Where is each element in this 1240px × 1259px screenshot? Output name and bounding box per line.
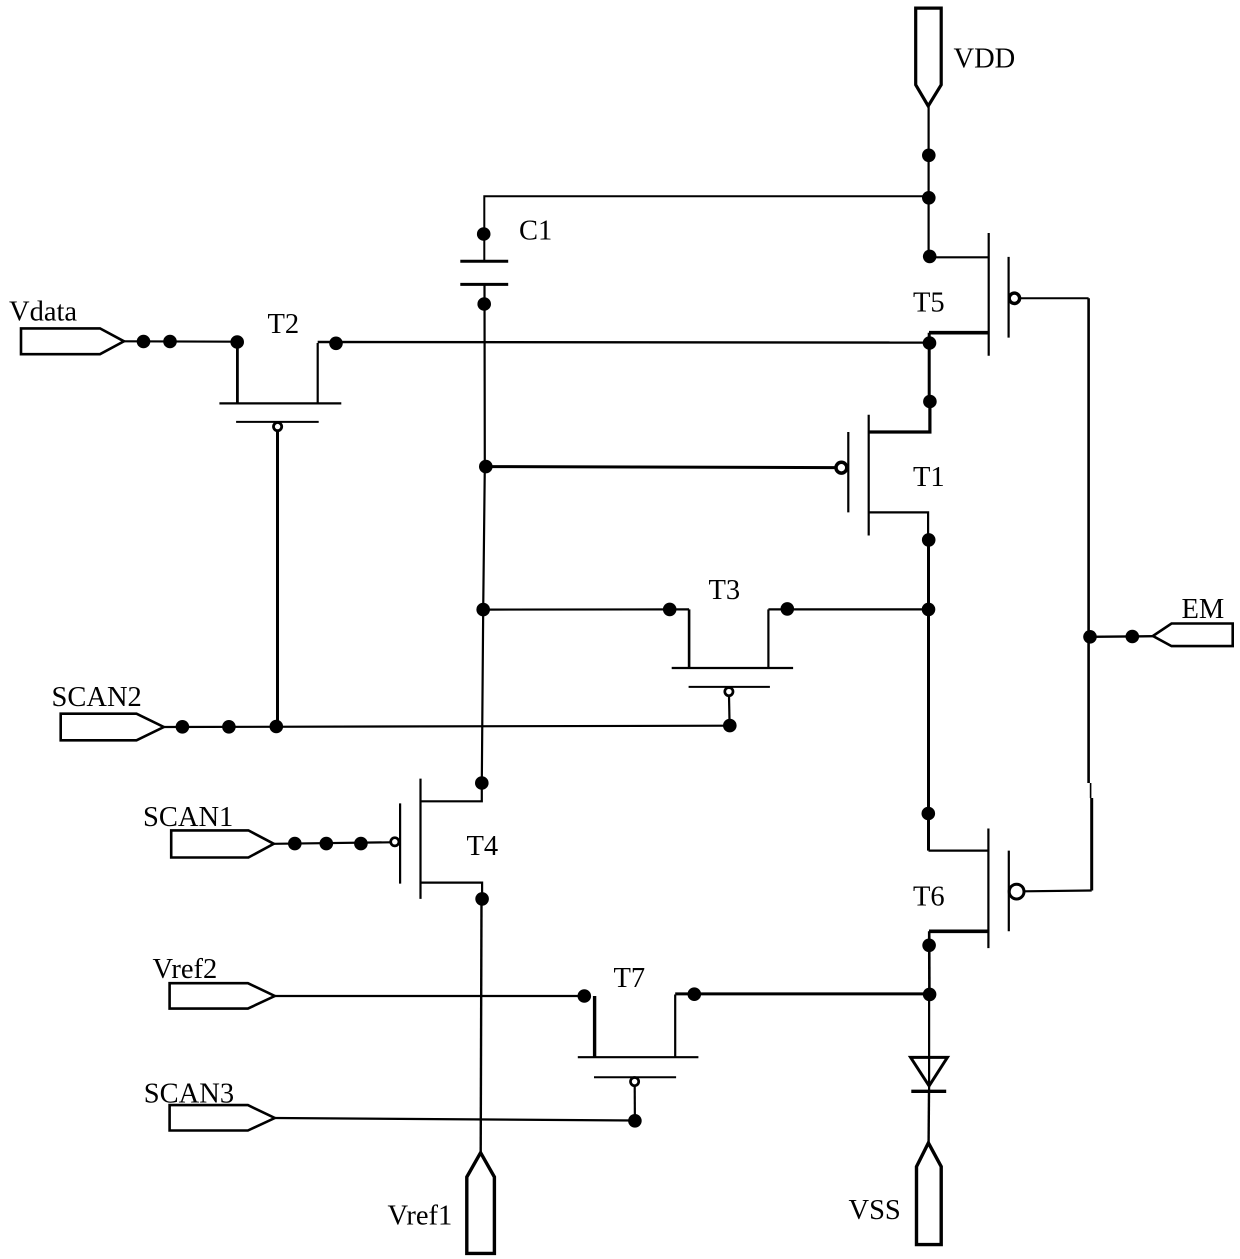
capacitor C1	[460, 261, 508, 284]
junction dot node B lower	[922, 807, 936, 821]
svg-text:T1: T1	[913, 462, 945, 493]
wire T5 gate bubble to EM rail	[1020, 297, 1089, 299]
svg-text:T6: T6	[913, 881, 945, 912]
terminal SCAN3	[170, 1105, 275, 1130]
wire T3 gate to SCAN2	[728, 696, 731, 726]
svg-text:T5: T5	[913, 287, 945, 318]
junction dot VDD rail	[922, 149, 936, 163]
junction dot C1 top	[477, 227, 491, 241]
junction dot T4 drain node	[475, 776, 489, 790]
terminal Vdata	[21, 328, 124, 354]
wire T6 gate bubble to EM rail	[1024, 889, 1092, 892]
svg-text:VSS: VSS	[849, 1195, 901, 1226]
junction dot SCAN1 2	[320, 837, 334, 851]
wire Vref2 to T7 source	[275, 995, 585, 997]
junction dot SCAN2 T2 gate	[270, 720, 284, 734]
terminal EM	[1153, 624, 1233, 647]
junction dot node B at T3	[922, 603, 936, 617]
svg-text:T2: T2	[268, 309, 300, 340]
svg-text:SCAN3: SCAN3	[144, 1079, 234, 1110]
transistor T3	[672, 609, 793, 695]
wire node A to T3 source	[483, 608, 689, 610]
svg-text:T7: T7	[614, 963, 646, 994]
wire C1 top to VDD rail	[484, 196, 929, 261]
junction dot T1 drain	[923, 395, 937, 409]
junction dot T7 source	[578, 989, 592, 1003]
junction dot T7 drain	[688, 987, 702, 1001]
wire T2 drain to T5 source (long horizontal)	[318, 341, 930, 344]
transistor T1	[836, 402, 930, 541]
junction dot T1 source	[922, 533, 936, 547]
diode OLED	[911, 1057, 948, 1091]
wire Vdata to T2 source	[124, 340, 237, 343]
wire T4 source rail to Vref1	[480, 899, 483, 1153]
junction dot SCAN2 2	[222, 720, 236, 734]
wire node B rail (T1 source to T6 drain)	[927, 540, 930, 851]
junction dot T2 drain wire	[329, 337, 343, 351]
junction dot SCAN2 T3 gate	[723, 719, 737, 733]
junction dot C1 bottom	[477, 297, 491, 311]
terminal SCAN1	[171, 830, 274, 857]
junction dot SCAN2 1	[176, 720, 190, 734]
svg-text:C1: C1	[519, 216, 552, 247]
junction dot VDD-C1 node	[922, 191, 936, 205]
svg-text:SCAN2: SCAN2	[52, 682, 142, 713]
transistor T7	[578, 995, 699, 1086]
svg-text:Vdata: Vdata	[9, 296, 77, 327]
power terminal VDD	[916, 8, 942, 106]
wire SCAN2 line	[164, 726, 730, 727]
svg-text:SCAN1: SCAN1	[143, 802, 233, 833]
transistor T4	[391, 779, 482, 899]
wire EM lead	[1090, 635, 1153, 638]
svg-text:Vref1: Vref1	[388, 1201, 453, 1232]
terminal Vref2	[170, 983, 275, 1008]
junction dot T4 source node	[475, 892, 489, 906]
svg-text:VDD: VDD	[954, 44, 1016, 75]
svg-text:EM: EM	[1182, 594, 1225, 625]
junction dot node A T3 wire	[476, 603, 490, 617]
junction dot T2 source	[230, 335, 244, 349]
junction dot Vdata wire 1	[137, 335, 151, 349]
wire SCAN1 to T4 gate	[274, 842, 391, 844]
transistor T5	[929, 233, 1020, 356]
junction dot Vdata wire 2	[163, 335, 177, 349]
junction dot T3 source	[663, 603, 677, 617]
wire node-A vertical rail (C1 bottom to T4 drain)	[482, 284, 485, 783]
wire VSS rail	[928, 994, 930, 1091]
wire T2 gate to SCAN2	[276, 431, 279, 726]
junction dot SCAN1 3	[354, 837, 368, 851]
svg-text:Vref2: Vref2	[153, 954, 218, 985]
svg-text:T4: T4	[467, 831, 499, 862]
junction dot T3 drain	[781, 602, 795, 616]
svg-text:T3: T3	[709, 575, 741, 606]
wire T7 drain to VSS rail	[675, 992, 929, 995]
transistor T2	[219, 342, 341, 431]
junction dot EM rail	[1083, 630, 1097, 644]
wire T1 gate to node A	[485, 467, 836, 468]
wire EM rail (T5 gate to T6 gate)	[1087, 298, 1090, 783]
junction dot T6 source	[922, 939, 936, 953]
junction dot VSS rail T7	[923, 988, 937, 1002]
junction dot T5 source node	[923, 336, 937, 350]
terminal SCAN2	[61, 714, 164, 741]
terminal Vref1	[467, 1153, 495, 1254]
junction dot SCAN3 T7 gate	[628, 1114, 642, 1128]
terminal VSS	[917, 1143, 942, 1245]
transistor T6	[929, 829, 1024, 949]
wire diode to VSS terminal	[927, 1091, 930, 1143]
junction dot EM lead	[1126, 630, 1140, 644]
wire SCAN3 line	[275, 1118, 635, 1121]
wire T7 gate to SCAN3	[634, 1086, 636, 1121]
junction dot node A gate wire	[479, 460, 493, 474]
wire VDD rail	[927, 106, 929, 257]
junction dot SCAN1 1	[288, 837, 302, 851]
wire T6 source to VSS node	[928, 931, 931, 994]
junction dot T5 drain node	[923, 250, 937, 264]
wire T5 source down to node B	[928, 333, 931, 402]
wire T3 drain to node B	[768, 608, 928, 610]
